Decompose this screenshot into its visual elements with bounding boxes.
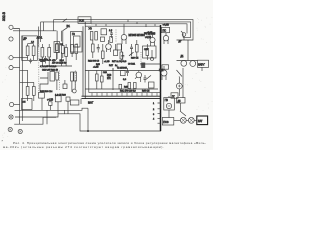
svg-text:R31 470 С18 5,0: R31 470 С18 5,0 [120, 91, 137, 93]
resistor R13 [134, 83, 137, 89]
svg-text:4,3: 4,3 [31, 42, 35, 44]
svg-text:*: * [2, 140, 4, 144]
resistor R3 [41, 48, 44, 58]
resistor R2 [32, 46, 35, 56]
svg-text:R17 1к С8 30,0: R17 1к С8 30,0 [112, 61, 127, 63]
svg-text:1,5: 1,5 [109, 30, 113, 32]
wire drop x43 [42, 22, 44, 31]
tall box pot [50, 72, 55, 82]
wire border drop [80, 99, 82, 104]
resistor R19 [75, 45, 78, 54]
svg-text:1,0 СБ R28: 1,0 СБ R28 [55, 94, 67, 96]
wire feeds [28, 82, 34, 101]
box GS [162, 118, 174, 126]
resistor pair row [119, 84, 122, 89]
dashed v2 [58, 71, 60, 91]
pin stubs on divider [158, 103, 161, 123]
wire from contact3 [13, 57, 28, 59]
T7 leads [151, 34, 155, 47]
wire head drop [168, 96, 170, 118]
T2 leads [107, 40, 111, 52]
svg-text:+1,2В: +1,2В [104, 61, 110, 63]
resistor R11 [32, 87, 35, 96]
svg-text:Д1: Д1 [181, 55, 185, 58]
bottom double border line a [82, 95, 161, 97]
lamp L1 [180, 117, 186, 123]
small resistor2 [66, 97, 70, 101]
svg-text:R25 510 С14: R25 510 С14 [40, 91, 53, 93]
svg-text:R12 680 С6: R12 680 С6 [88, 61, 100, 63]
node contact 5 [10, 102, 14, 106]
svg-text:С9 R21: С9 R21 [128, 64, 136, 66]
svg-text:+4,8В: +4,8В [163, 24, 170, 27]
svg-text:С12 0,05 R22 4В: С12 0,05 R22 4В [42, 70, 59, 72]
dashed module edge [38, 44, 40, 95]
small circle component [72, 89, 76, 93]
wire R1R2 top [28, 44, 34, 60]
transistor T6 arrow [177, 70, 183, 77]
GV circle mark [168, 105, 171, 107]
wire rail x27 [27, 70, 29, 82]
wire drop [178, 77, 180, 97]
sub box AP [54, 42, 60, 53]
board left edge a [82, 26, 84, 96]
wire vertical x47 [46, 110, 48, 124]
wire drops row2 [93, 40, 103, 64]
wire drops row4 [147, 44, 152, 60]
capacitor C7 [110, 30, 113, 39]
cap C10 [126, 68, 129, 76]
wire verticals bottom area [42, 98, 68, 114]
cap C8 [121, 52, 124, 60]
svg-text:ГВ: ГВ [165, 99, 168, 102]
svg-text:Д5: Д5 [178, 100, 182, 103]
transistor T3 [136, 72, 142, 78]
component row boxes [39, 93, 45, 99]
component box K1 [114, 50, 118, 56]
electrolytic C9 [141, 63, 145, 69]
resistor R22 [120, 52, 123, 59]
wire verticals low [57, 80, 75, 92]
capacitor C5 [97, 44, 100, 53]
resistor R5 [56, 44, 59, 51]
svg-text:+4,2В: +4,2В [47, 100, 54, 102]
svg-text:R35 СИ: R35 СИ [142, 91, 150, 93]
choke module box DR [22, 36, 38, 61]
extra resistor RB [101, 76, 104, 82]
svg-text:+2,1В: +2,1В [93, 67, 99, 69]
svg-text:2: 2 [153, 109, 155, 111]
transistor T5 [163, 36, 168, 41]
wire stub vertical [87, 108, 89, 131]
node contact 1 [9, 25, 13, 29]
component box c10 [121, 71, 126, 76]
resistor R15 [62, 46, 65, 54]
top bus line 3 [91, 24, 187, 34]
node contact 6 [9, 115, 13, 119]
T5 leads [164, 33, 168, 44]
wire D5 down [180, 103, 182, 111]
junction [87, 130, 88, 131]
svg-text:П41: П41 [159, 69, 164, 72]
wire bat stub [201, 67, 203, 71]
wire v x113 [112, 68, 114, 90]
wire bottom row1 [42, 65, 72, 67]
node contact 2 [9, 37, 13, 41]
resistor R23 [136, 45, 139, 53]
transistor T7 [150, 37, 155, 42]
head inner mark [178, 85, 181, 88]
relay circle [150, 57, 153, 60]
extra box right-mid [149, 82, 155, 88]
wire row [57, 52, 62, 66]
svg-text:0,3: 0,3 [123, 79, 127, 81]
head hatch [75, 44, 80, 47]
motor circle M2 [190, 61, 196, 67]
resistor R12 [128, 83, 131, 89]
resistor R7 [90, 32, 93, 41]
bus drop ticks [96, 20, 155, 27]
svg-text:R17: R17 [109, 65, 114, 67]
T3 leads [135, 71, 141, 83]
resistor R21 [102, 51, 105, 59]
wire from contact4 [13, 68, 28, 71]
svg-text:АП-1: АП-1 [37, 37, 43, 40]
wire drop from bus2 left [40, 22, 42, 42]
svg-text:УЗ: УЗ [89, 26, 93, 30]
node contact 7 [8, 127, 12, 131]
wire bat2 [174, 119, 197, 121]
diode box [162, 65, 169, 69]
battery box BAT2 [197, 116, 208, 125]
component: box below contact5 [22, 99, 33, 110]
svg-text:ма-302» (остальные разъемы 2Т4: ма-302» (остальные разъемы 2Т4 соответст… [3, 145, 164, 149]
wire from contact1 [13, 29, 57, 31]
board edge [85, 25, 160, 27]
scan speckle [2, 17, 212, 137]
switch B2 [129, 52, 134, 56]
switch B1 [63, 28, 68, 31]
resistor R27 [71, 72, 74, 81]
resistor R9 [110, 37, 113, 43]
svg-text:470 С3 10,0 R9: 470 С3 10,0 R9 [52, 63, 67, 65]
transistor T2 [106, 44, 112, 50]
switch B2 on bus [63, 19, 67, 22]
svg-text:ВЧ МП39Б: ВЧ МП39Б [144, 34, 156, 36]
resistor R26 [56, 72, 59, 80]
transistor T1 [121, 35, 127, 41]
resistor R24 [146, 49, 149, 56]
capacitor C2 [29, 59, 32, 64]
right block: box PS [162, 27, 170, 32]
dashed link [115, 30, 117, 43]
staircase wire left [40, 72, 48, 91]
svg-text:302-В: 302-В [2, 11, 6, 21]
terminal box on border [171, 93, 178, 98]
box GZS [70, 100, 79, 105]
svg-text:ПС: ПС [163, 29, 167, 32]
head circle GV2 [176, 83, 182, 89]
svg-text:СФ1 С2 1,5к: СФ1 С2 1,5к [39, 58, 51, 61]
head box GV [164, 98, 175, 111]
wire drops row3 [116, 40, 137, 63]
dashed link3 [74, 71, 76, 89]
wire cross [20, 81, 34, 83]
lamp L2 [188, 117, 194, 123]
record head module GZ [71, 32, 83, 53]
diode VD symbol [182, 33, 186, 37]
node contact 4 [9, 66, 13, 70]
wire right verticals [183, 34, 188, 61]
component box [117, 44, 122, 50]
svg-text:+0,1В: +0,1В [145, 37, 152, 39]
wire bottom bus 1 [15, 108, 88, 110]
T4 leads [162, 66, 166, 80]
wire rail left B [21, 36, 23, 121]
svg-text:27к: 27к [107, 78, 112, 80]
wire to battery [177, 60, 198, 62]
small box low [63, 84, 67, 89]
trimmer box [101, 29, 107, 35]
wire from contact5 [14, 104, 20, 106]
resistor R1 [26, 46, 29, 56]
sub box divider [89, 71, 161, 93]
wire bottom bus 2 [15, 110, 65, 117]
svg-text:R15: R15 [96, 64, 101, 66]
transistor T4 [161, 70, 167, 76]
wire top row link [38, 27, 40, 48]
GV circle [166, 103, 171, 108]
component small [101, 37, 105, 41]
resistor R6 [65, 48, 68, 57]
motor circle M1 [181, 60, 187, 66]
cap box C21 [55, 96, 61, 102]
svg-text:ГЗ: ГЗ [72, 33, 75, 36]
svg-text:Т2 МП39Б: Т2 МП39Б [117, 68, 128, 70]
oscillator box GSP [78, 17, 91, 24]
right edge vertical [182, 68, 184, 98]
diode lead [181, 31, 184, 40]
thick board divider vertical [160, 25, 162, 131]
switch B3 [147, 75, 152, 79]
bottom double border line b [82, 98, 161, 100]
svg-text:В1: В1 [67, 24, 71, 28]
wire bottom bus 3 [14, 117, 56, 124]
head symbol inner [74, 36, 81, 47]
wire drop from bus1 [53, 20, 55, 31]
wires mid low [97, 68, 113, 89]
svg-text:ПОЗ: ПОЗ [163, 121, 169, 124]
wire lamp feed [180, 111, 186, 116]
wire shelf lower [85, 88, 158, 90]
resistor R8 [95, 32, 98, 41]
svg-text:R18: R18 [107, 75, 112, 77]
resistor R14 [56, 44, 59, 53]
wire bottom bus 4 [65, 114, 161, 131]
capacitor C1 [44, 56, 47, 64]
svg-text:4: 4 [153, 119, 155, 121]
small resistor [49, 102, 52, 106]
extra resistor RA [96, 74, 99, 81]
node contact 3 [9, 56, 13, 60]
svg-text:3: 3 [153, 114, 155, 116]
wire mid right [140, 63, 161, 65]
battery box BAT [198, 60, 209, 67]
svg-text:АЛ: АЛ [23, 101, 27, 104]
top bus line 1 [54, 20, 194, 40]
wire rail left A [19, 31, 21, 124]
svg-text:БАТ-Г: БАТ-Г [198, 63, 205, 66]
svg-text:ДР: ДР [23, 36, 27, 40]
capacitor C11 [130, 44, 133, 52]
diode box D5 [177, 98, 186, 104]
svg-text:С16: С16 [103, 72, 108, 74]
dashed link2 [140, 52, 142, 68]
extra cap CB [144, 75, 147, 83]
resistor R20 [92, 44, 95, 52]
wire [65, 44, 67, 66]
svg-text:ДТ: ДТ [179, 41, 182, 43]
svg-text:БАТ: БАТ [198, 120, 203, 123]
wire sw drop [61, 31, 63, 42]
svg-text:ГСП: ГСП [79, 19, 84, 23]
resistor R28 [74, 72, 77, 81]
svg-text:МАГ: МАГ [88, 101, 94, 105]
svg-text:1: 1 [153, 103, 155, 105]
top bus line 2 [41, 22, 191, 37]
resistor R4 [48, 48, 51, 58]
svg-text:С15: С15 [144, 49, 149, 51]
node contact 8 [18, 129, 22, 133]
svg-text:R19 СЕ: R19 СЕ [131, 58, 139, 60]
resistor R16 [71, 45, 74, 54]
wire drops row1 [57, 31, 76, 60]
svg-text:МП39Б: МП39Б [129, 34, 137, 37]
board edge connector pins [92, 93, 157, 97]
board left edge b [84, 22, 86, 99]
T1 leads [122, 24, 126, 44]
wire shelf [85, 70, 160, 72]
relay box [143, 46, 157, 58]
resistor R10 [26, 87, 29, 96]
wire component feeds [42, 44, 49, 66]
